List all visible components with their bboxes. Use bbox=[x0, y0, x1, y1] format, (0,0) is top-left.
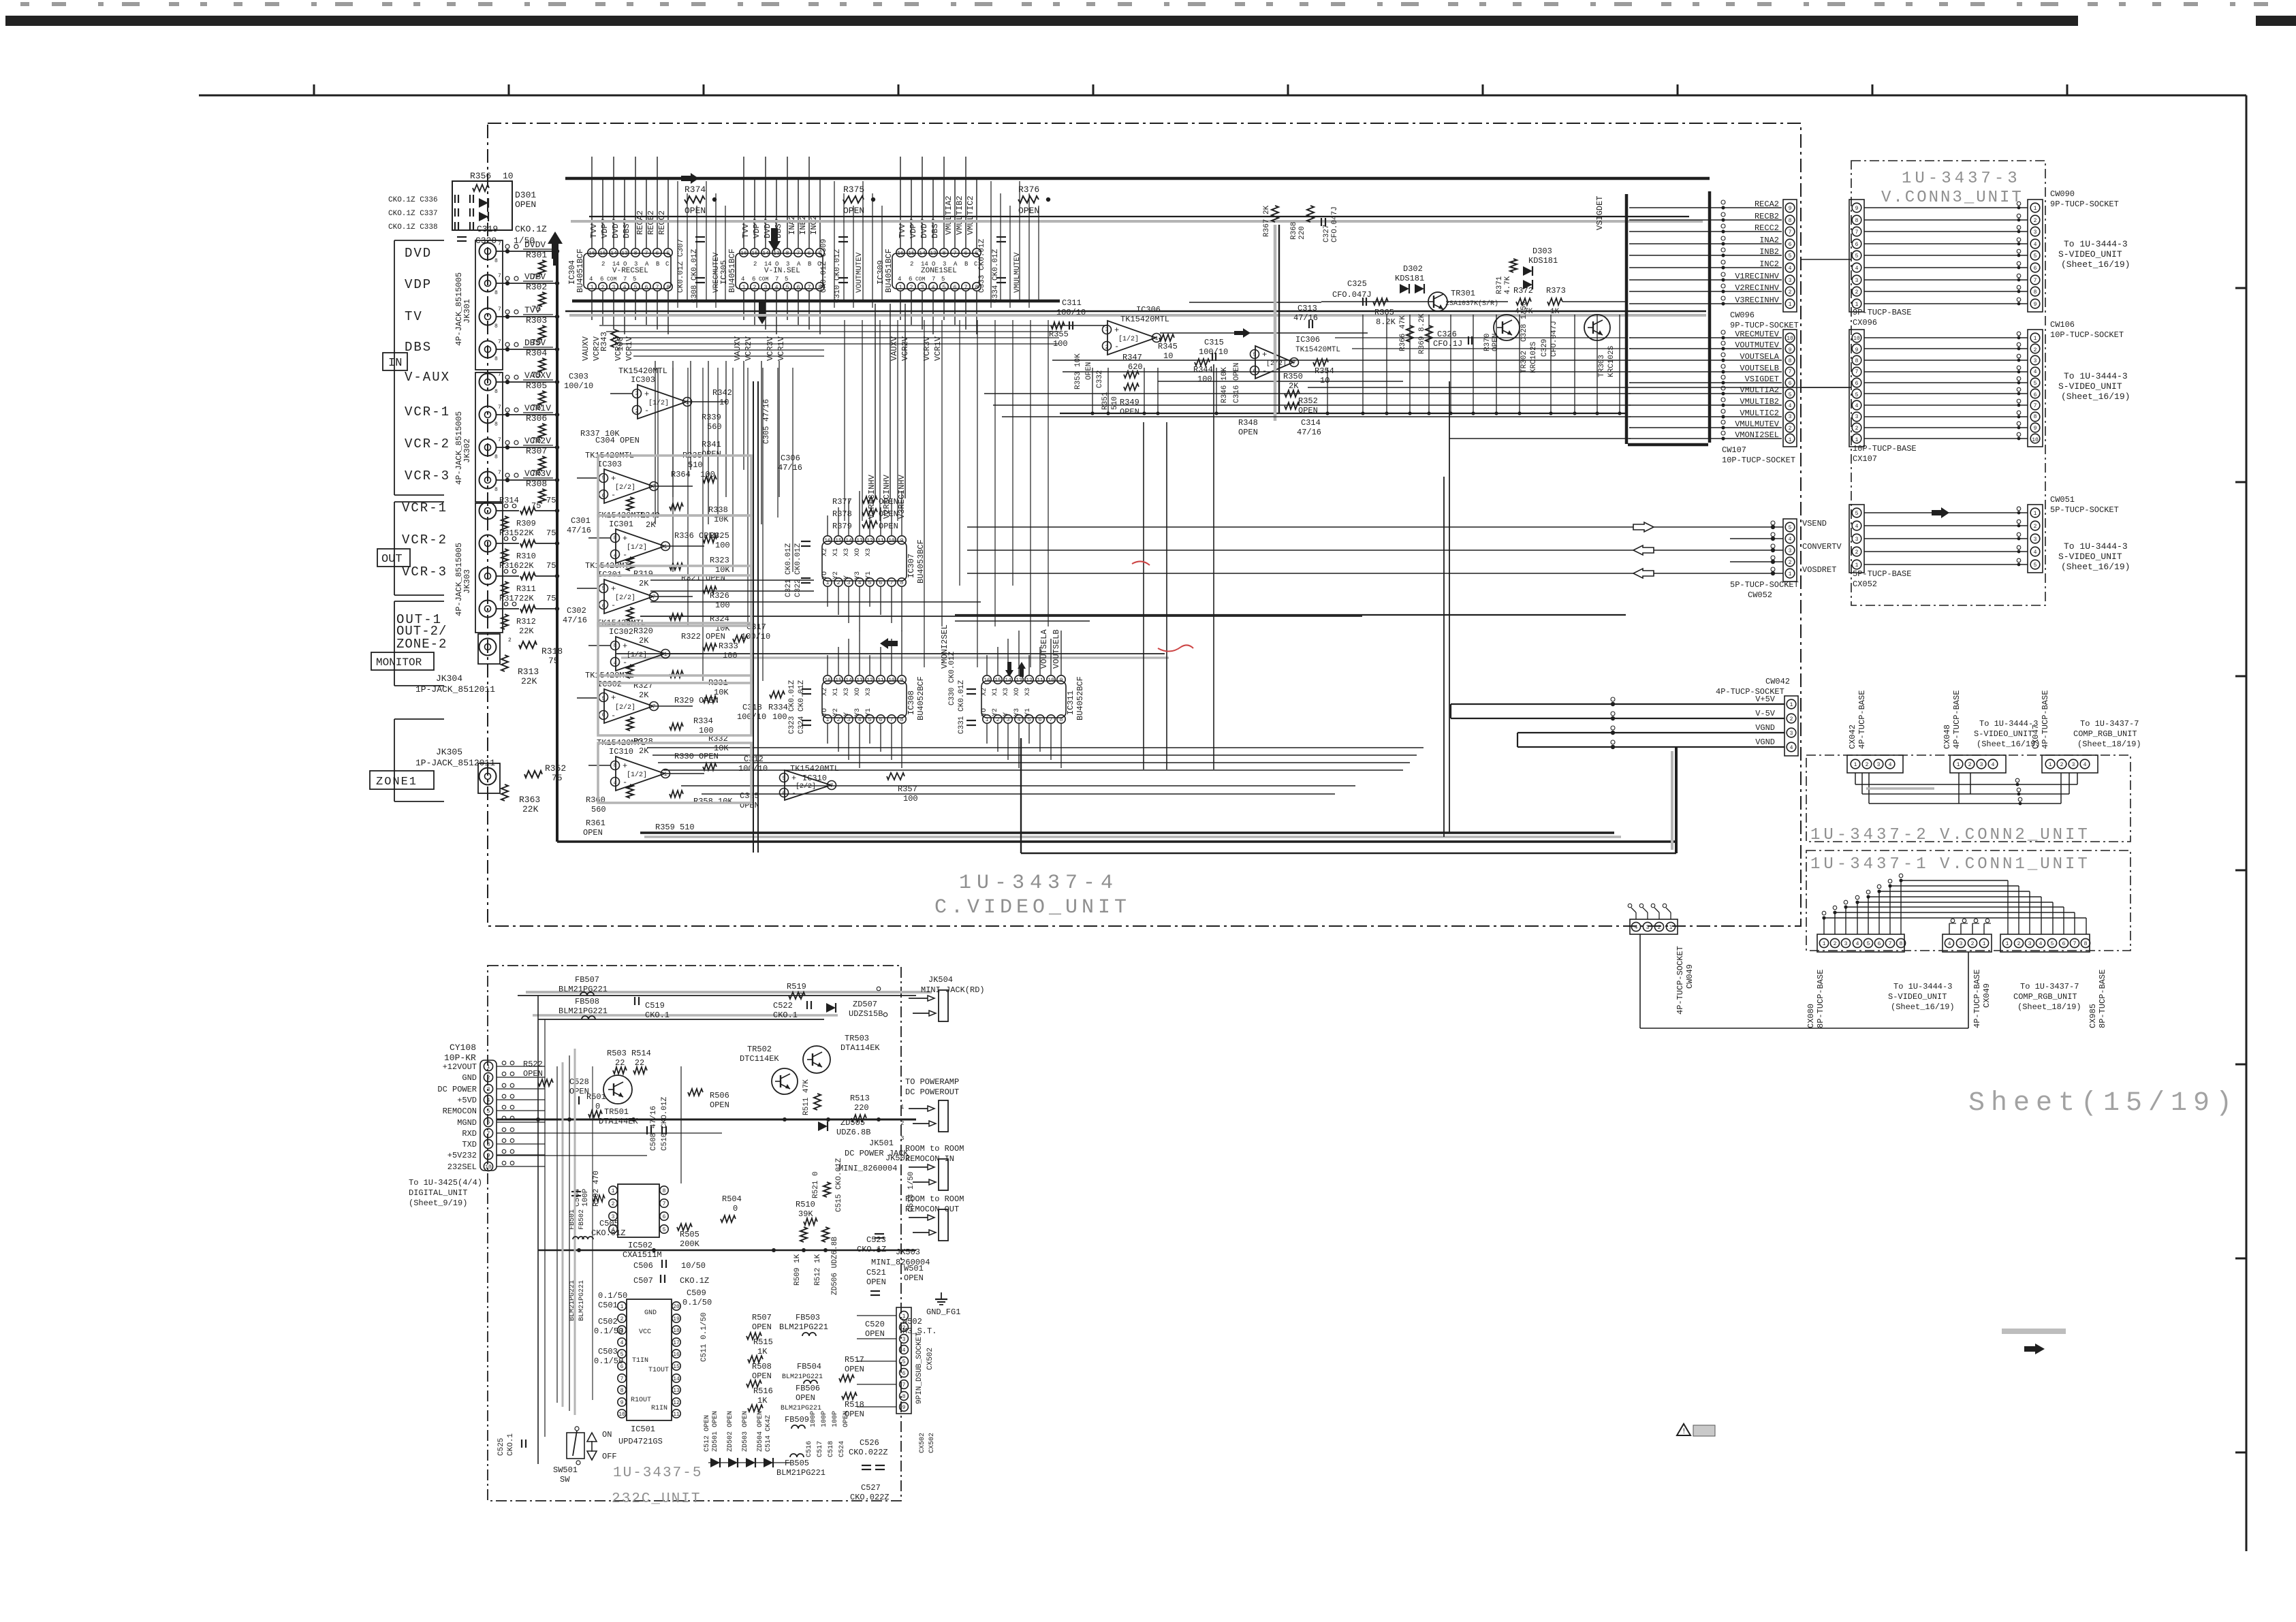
svg-text:R355: R355 bbox=[1049, 330, 1069, 339]
svg-text:10: 10 bbox=[2032, 437, 2039, 443]
svg-text:7: 7 bbox=[1789, 369, 1792, 375]
svg-text:5P-TUCP-BASE: 5P-TUCP-BASE bbox=[1853, 569, 1911, 579]
svg-text:8: 8 bbox=[494, 422, 498, 428]
svg-text:ZD503 OPEN: ZD503 OPEN bbox=[742, 1411, 749, 1452]
svg-text:100P: 100P bbox=[832, 1411, 839, 1427]
svg-text:5: 5 bbox=[786, 285, 789, 291]
svg-text:4: 4 bbox=[2034, 242, 2037, 248]
svg-text:0.1/50: 0.1/50 bbox=[598, 1291, 627, 1301]
svg-text:100/10: 100/10 bbox=[1056, 308, 1086, 317]
svg-text:15: 15 bbox=[599, 251, 606, 257]
svg-text:7: 7 bbox=[652, 704, 656, 710]
svg-text:C311: C311 bbox=[1062, 298, 1082, 308]
svg-text:7: 7 bbox=[1855, 229, 1859, 236]
svg-text:7: 7 bbox=[652, 484, 656, 490]
svg-text:S-VIDEO_UNIT: S-VIDEO_UNIT bbox=[2058, 381, 2122, 392]
svg-text:OPEN: OPEN bbox=[843, 206, 864, 216]
svg-text:1: 1 bbox=[2049, 762, 2052, 768]
svg-text:2: 2 bbox=[1834, 941, 1837, 947]
svg-text:10: 10 bbox=[1320, 376, 1330, 385]
svg-text:OPEN: OPEN bbox=[879, 522, 898, 531]
svg-text:X3: X3 bbox=[1003, 688, 1010, 696]
svg-text:BU4051BCF: BU4051BCF bbox=[727, 249, 737, 293]
svg-text:7: 7 bbox=[797, 251, 800, 257]
svg-text:620: 620 bbox=[1128, 362, 1143, 372]
svg-text:[1/2]: [1/2] bbox=[627, 651, 647, 659]
svg-text:10: 10 bbox=[485, 1164, 492, 1171]
svg-text:3: 3 bbox=[1790, 731, 1793, 737]
svg-text:C506: C506 bbox=[633, 1261, 653, 1271]
svg-text:11: 11 bbox=[877, 538, 884, 544]
svg-text:+: + bbox=[611, 474, 616, 483]
svg-text:2: 2 bbox=[2034, 524, 2037, 530]
svg-text:4: 4 bbox=[614, 780, 617, 786]
svg-text:BLM21PG221: BLM21PG221 bbox=[776, 1468, 825, 1478]
svg-text:CKO.1: CKO.1 bbox=[645, 1011, 670, 1020]
svg-text:1: 1 bbox=[664, 544, 667, 550]
svg-text:GND_FG1: GND_FG1 bbox=[926, 1307, 960, 1317]
svg-text:2: 2 bbox=[837, 580, 840, 586]
svg-text:C520: C520 bbox=[865, 1320, 885, 1329]
svg-text:C501: C501 bbox=[598, 1301, 618, 1310]
svg-text:7: 7 bbox=[775, 276, 779, 283]
svg-text:X3: X3 bbox=[865, 548, 872, 556]
svg-text:R368: R368 bbox=[1290, 222, 1298, 240]
svg-text:4: 4 bbox=[620, 1340, 624, 1346]
svg-text:CW090: CW090 bbox=[2050, 189, 2075, 199]
svg-text:1: 1 bbox=[1789, 302, 1792, 308]
svg-text:232C_UNIT: 232C_UNIT bbox=[612, 1491, 701, 1507]
svg-text:5: 5 bbox=[868, 580, 872, 586]
svg-text:14: 14 bbox=[845, 538, 852, 544]
svg-text:C316 OPEN: C316 OPEN bbox=[1233, 363, 1241, 403]
svg-text:R339: R339 bbox=[702, 413, 721, 422]
svg-text:22K: 22K bbox=[521, 676, 537, 686]
svg-text:2: 2 bbox=[2034, 347, 2037, 353]
svg-text:5: 5 bbox=[2034, 562, 2037, 569]
svg-text:4P-TUCP-BASE: 4P-TUCP-BASE bbox=[1972, 970, 1982, 1028]
svg-text:1: 1 bbox=[664, 772, 667, 778]
svg-text:INA2: INA2 bbox=[787, 215, 797, 235]
svg-text:3: 3 bbox=[902, 1337, 906, 1343]
svg-text:X3: X3 bbox=[865, 688, 872, 696]
svg-text:7: 7 bbox=[1855, 369, 1859, 375]
svg-text:VRECMUTEV: VRECMUTEV bbox=[712, 252, 721, 293]
svg-text:7: 7 bbox=[498, 339, 501, 345]
svg-text:XO: XO bbox=[854, 548, 862, 556]
svg-text:3: 3 bbox=[634, 261, 638, 268]
svg-text:TR501: TR501 bbox=[604, 1107, 629, 1117]
svg-text:V.CONN2_UNIT: V.CONN2_UNIT bbox=[1940, 826, 2090, 844]
svg-text:47/16: 47/16 bbox=[778, 463, 802, 473]
svg-text:6: 6 bbox=[656, 251, 659, 257]
svg-text:3: 3 bbox=[847, 717, 851, 723]
svg-text:C528: C528 bbox=[569, 1077, 589, 1087]
svg-text:S-VIDEO_UNIT: S-VIDEO_UNIT bbox=[1888, 992, 1947, 1002]
svg-text:X3: X3 bbox=[1024, 688, 1032, 696]
svg-text:R367 2K: R367 2K bbox=[1263, 205, 1271, 237]
svg-text:R320: R320 bbox=[633, 626, 653, 636]
svg-text:3: 3 bbox=[2034, 358, 2037, 364]
svg-text:8: 8 bbox=[494, 356, 498, 362]
svg-text:100: 100 bbox=[1197, 375, 1212, 384]
svg-text:7: 7 bbox=[964, 285, 968, 291]
svg-text:-: - bbox=[611, 490, 616, 500]
svg-text:8: 8 bbox=[487, 1142, 490, 1148]
svg-text:4P-JACK_8515005: 4P-JACK_8515005 bbox=[454, 411, 464, 485]
svg-text:DIGITAL_UNIT: DIGITAL_UNIT bbox=[409, 1188, 467, 1198]
svg-text:8: 8 bbox=[1060, 717, 1063, 723]
svg-text:13: 13 bbox=[856, 678, 863, 684]
svg-text:100: 100 bbox=[715, 541, 730, 550]
svg-text:OPEN: OPEN bbox=[752, 1322, 772, 1332]
svg-text:15: 15 bbox=[751, 251, 758, 257]
svg-text:Y: Y bbox=[1003, 712, 1010, 716]
svg-text:1: 1 bbox=[900, 1104, 904, 1111]
svg-text:100P: 100P bbox=[582, 1188, 590, 1207]
svg-text:XO: XO bbox=[1013, 688, 1021, 696]
svg-text:1: 1 bbox=[826, 717, 830, 723]
svg-text:2: 2 bbox=[601, 261, 605, 268]
svg-text:4: 4 bbox=[1789, 537, 1792, 543]
svg-text:3: 3 bbox=[1105, 327, 1109, 333]
svg-text:16: 16 bbox=[897, 251, 904, 257]
svg-text:JK504: JK504 bbox=[928, 975, 953, 985]
svg-text:1: 1 bbox=[620, 1304, 624, 1310]
svg-text:10: 10 bbox=[1048, 678, 1054, 684]
svg-text:C305 47/16: C305 47/16 bbox=[763, 399, 771, 444]
svg-text:C335: C335 bbox=[740, 791, 759, 801]
svg-text:5: 5 bbox=[1867, 941, 1870, 947]
svg-text:V-IN.SEL: V-IN.SEL bbox=[764, 267, 800, 275]
svg-text:1: 1 bbox=[1823, 941, 1826, 947]
svg-text:R341: R341 bbox=[702, 440, 721, 449]
svg-text:A: A bbox=[797, 261, 801, 268]
svg-text:IC301: IC301 bbox=[609, 520, 633, 529]
svg-text:S-VIDEO_UNIT: S-VIDEO_UNIT bbox=[1974, 729, 2032, 739]
svg-text:5: 5 bbox=[1789, 253, 1792, 259]
svg-text:1: 1 bbox=[1790, 702, 1793, 708]
svg-text:C310 CK0.01Z: C310 CK0.01Z bbox=[834, 249, 842, 303]
svg-text:232SEL: 232SEL bbox=[447, 1162, 477, 1172]
svg-text:TK15420MTL: TK15420MTL bbox=[618, 366, 667, 376]
svg-text:XO: XO bbox=[854, 688, 862, 696]
svg-text:A: A bbox=[954, 261, 958, 268]
svg-text:FB503: FB503 bbox=[796, 1313, 820, 1322]
svg-text:GND: GND bbox=[462, 1073, 477, 1083]
svg-text:Y2: Y2 bbox=[832, 571, 840, 579]
svg-text:DC POWEROUT: DC POWEROUT bbox=[905, 1087, 959, 1097]
svg-text:VOSDRET: VOSDRET bbox=[1802, 565, 1836, 575]
svg-text:1: 1 bbox=[487, 1064, 490, 1070]
svg-text:IC308: IC308 bbox=[907, 690, 916, 715]
svg-text:13: 13 bbox=[773, 251, 780, 257]
svg-text:VAUXV: VAUXV bbox=[524, 370, 551, 381]
svg-text:R505: R505 bbox=[680, 1230, 699, 1239]
svg-text:1U-3437-5: 1U-3437-5 bbox=[613, 1465, 702, 1481]
svg-text:8: 8 bbox=[902, 1394, 906, 1400]
svg-text:8: 8 bbox=[614, 535, 617, 541]
svg-text:100: 100 bbox=[772, 712, 787, 722]
svg-text:8: 8 bbox=[2084, 941, 2088, 947]
svg-text:0: 0 bbox=[595, 1102, 600, 1111]
svg-text:Y: Y bbox=[843, 712, 851, 716]
svg-text:12: 12 bbox=[866, 538, 873, 544]
svg-text:VSIGDET: VSIGDET bbox=[1595, 196, 1605, 230]
svg-text:3: 3 bbox=[1789, 278, 1792, 284]
svg-text:2: 2 bbox=[487, 1075, 490, 1081]
svg-text:CKO.1: CKO.1 bbox=[507, 1433, 515, 1456]
svg-text:4P-TUCP-BASE: 4P-TUCP-BASE bbox=[1857, 690, 1867, 749]
svg-text:V.CONN3_UNIT: V.CONN3_UNIT bbox=[1881, 189, 2024, 207]
svg-text:VSEND: VSEND bbox=[1802, 519, 1827, 528]
svg-text:R356: R356 bbox=[470, 171, 491, 181]
svg-text:BLM21PG221: BLM21PG221 bbox=[569, 1280, 576, 1321]
svg-text:4: 4 bbox=[1856, 941, 1859, 947]
svg-text:ZD504 OPEN: ZD504 OPEN bbox=[757, 1411, 764, 1452]
svg-text:1U-3437-4: 1U-3437-4 bbox=[959, 872, 1118, 895]
svg-text:[1/2]: [1/2] bbox=[648, 399, 669, 407]
svg-text:CKO.1Z C337: CKO.1Z C337 bbox=[388, 210, 438, 218]
svg-text:Y3: Y3 bbox=[1013, 708, 1021, 716]
svg-text:13: 13 bbox=[621, 251, 628, 257]
svg-text:8: 8 bbox=[900, 717, 904, 723]
svg-text:4: 4 bbox=[2039, 941, 2043, 947]
svg-text:7: 7 bbox=[487, 1131, 490, 1137]
svg-text:VCR3V: VCR3V bbox=[922, 336, 932, 361]
svg-text:8: 8 bbox=[667, 285, 670, 291]
svg-text:R509 1K: R509 1K bbox=[793, 1254, 802, 1286]
svg-text:2: 2 bbox=[508, 637, 512, 643]
svg-text:6: 6 bbox=[602, 712, 606, 718]
svg-text:COM: COM bbox=[607, 276, 617, 283]
svg-text:C523: C523 bbox=[866, 1235, 886, 1245]
svg-text:Y: Y bbox=[843, 575, 851, 579]
svg-text:C526: C526 bbox=[860, 1438, 879, 1448]
svg-text:C322 CK0.01Z: C322 CK0.01Z bbox=[794, 543, 802, 597]
svg-text:VCR-2: VCR-2 bbox=[402, 532, 447, 547]
svg-text:YO: YO bbox=[981, 708, 988, 716]
svg-text:IC307: IC307 bbox=[907, 554, 916, 578]
svg-text:4: 4 bbox=[1855, 524, 1859, 530]
svg-text:14: 14 bbox=[764, 261, 772, 268]
svg-text:R309: R309 bbox=[516, 519, 536, 528]
svg-text:R511 47K: R511 47K bbox=[802, 1079, 811, 1115]
svg-text:VGND: VGND bbox=[1755, 723, 1775, 733]
svg-text:6: 6 bbox=[879, 717, 883, 723]
svg-text:4: 4 bbox=[1790, 745, 1793, 751]
svg-text:2: 2 bbox=[910, 261, 913, 268]
svg-text:3: 3 bbox=[1855, 537, 1859, 543]
svg-text:R365: R365 bbox=[1374, 308, 1394, 317]
svg-text:100/10: 100/10 bbox=[564, 381, 593, 391]
svg-text:BU4053BCF: BU4053BCF bbox=[916, 539, 926, 584]
svg-text:47/16: 47/16 bbox=[1297, 428, 1321, 437]
svg-text:VMULTIB2: VMULTIB2 bbox=[955, 195, 964, 235]
svg-text:10: 10 bbox=[888, 678, 895, 684]
svg-text:7: 7 bbox=[1050, 717, 1053, 723]
svg-text:JK301: JK301 bbox=[462, 299, 472, 323]
svg-text:1U-3437-3: 1U-3437-3 bbox=[1902, 170, 2021, 188]
svg-text:R1OUT: R1OUT bbox=[631, 1397, 651, 1404]
svg-text:4: 4 bbox=[1855, 403, 1859, 409]
svg-text:[1/2]: [1/2] bbox=[1118, 335, 1139, 343]
svg-text:CKO.1Z C336: CKO.1Z C336 bbox=[388, 196, 438, 204]
svg-text:5: 5 bbox=[1855, 392, 1859, 398]
svg-text:14: 14 bbox=[1005, 678, 1011, 684]
svg-text:MONITOR: MONITOR bbox=[376, 656, 422, 669]
svg-text:R359 510: R359 510 bbox=[655, 823, 695, 832]
svg-text:7: 7 bbox=[1293, 360, 1296, 366]
svg-text:FB506: FB506 bbox=[796, 1384, 820, 1393]
svg-text:7: 7 bbox=[498, 404, 501, 411]
svg-text:8: 8 bbox=[663, 1188, 666, 1194]
svg-text:4: 4 bbox=[2034, 550, 2037, 556]
svg-text:5: 5 bbox=[943, 285, 946, 291]
svg-text:R358 10K: R358 10K bbox=[693, 797, 733, 806]
svg-text:[1/2]: [1/2] bbox=[627, 771, 647, 779]
svg-text:INC2: INC2 bbox=[809, 215, 819, 235]
svg-text:8: 8 bbox=[786, 251, 789, 257]
svg-text:FB508: FB508 bbox=[575, 997, 599, 1006]
svg-text:22K: 22K bbox=[519, 626, 534, 636]
svg-text:1K: 1K bbox=[757, 1396, 768, 1405]
svg-text:9P-TUCP-SOCKET: 9P-TUCP-SOCKET bbox=[2050, 200, 2119, 209]
svg-text:DBS: DBS bbox=[405, 340, 432, 355]
svg-text:8P-TUCP-BASE: 8P-TUCP-BASE bbox=[2098, 970, 2107, 1028]
svg-text:6: 6 bbox=[954, 285, 957, 291]
svg-text:R317: R317 bbox=[499, 594, 519, 603]
svg-text:17: 17 bbox=[673, 1340, 680, 1346]
svg-text:R345: R345 bbox=[1158, 342, 1178, 351]
svg-text:C503: C503 bbox=[598, 1347, 618, 1356]
svg-text:11: 11 bbox=[673, 1412, 680, 1418]
svg-text:4: 4 bbox=[623, 285, 627, 291]
svg-text:560: 560 bbox=[591, 805, 606, 814]
svg-text:6: 6 bbox=[1855, 242, 1859, 248]
svg-text:14: 14 bbox=[921, 261, 928, 268]
svg-text:Y1: Y1 bbox=[1024, 708, 1032, 716]
svg-text:6: 6 bbox=[797, 285, 800, 291]
svg-text:22K: 22K bbox=[522, 804, 539, 814]
svg-text:8: 8 bbox=[1855, 358, 1859, 364]
svg-text:4: 4 bbox=[614, 553, 617, 559]
svg-text:9: 9 bbox=[1789, 347, 1792, 353]
svg-text:S-VIDEO_UNIT: S-VIDEO_UNIT bbox=[2058, 249, 2122, 259]
svg-text:R357: R357 bbox=[898, 784, 917, 794]
svg-text:OPEN: OPEN bbox=[583, 828, 603, 838]
svg-text:VCR1V: VCR1V bbox=[625, 336, 634, 361]
svg-text:C328 1/50: C328 1/50 bbox=[1520, 302, 1528, 342]
svg-text:COM: COM bbox=[759, 276, 769, 283]
svg-text:CX042: CX042 bbox=[1848, 725, 1857, 749]
svg-text:To 1U-3437-7: To 1U-3437-7 bbox=[2020, 982, 2079, 991]
svg-text:VOUTSELB: VOUTSELB bbox=[1052, 629, 1061, 669]
svg-text:IC306: IC306 bbox=[1136, 305, 1161, 315]
svg-text:7: 7 bbox=[498, 470, 501, 476]
svg-text:C505: C505 bbox=[599, 1219, 619, 1228]
svg-text:ZD507: ZD507 bbox=[853, 1000, 877, 1009]
svg-text:Y1: Y1 bbox=[865, 708, 872, 716]
svg-text:1: 1 bbox=[591, 285, 594, 291]
svg-text:5P-TUCP-SOCKET: 5P-TUCP-SOCKET bbox=[2050, 505, 2119, 515]
svg-text:CW106: CW106 bbox=[2050, 320, 2075, 330]
svg-text:5: 5 bbox=[868, 717, 872, 723]
svg-text:5: 5 bbox=[602, 475, 606, 481]
svg-text:ZD506 UDZ6.8B: ZD506 UDZ6.8B bbox=[831, 1237, 839, 1295]
svg-text:9: 9 bbox=[902, 1405, 906, 1411]
svg-text:Y1: Y1 bbox=[865, 571, 872, 579]
svg-text:DBSV: DBSV bbox=[524, 338, 546, 348]
svg-text:6: 6 bbox=[1789, 242, 1792, 248]
svg-text:1: 1 bbox=[986, 717, 989, 723]
svg-text:R346 10K: R346 10K bbox=[1221, 367, 1229, 403]
svg-text:R312: R312 bbox=[516, 617, 536, 626]
svg-text:CK0.01Z C307: CK0.01Z C307 bbox=[677, 239, 685, 293]
svg-text:2: 2 bbox=[1789, 289, 1792, 296]
svg-text:+: + bbox=[611, 693, 616, 703]
svg-text:4P-TUCP-BASE: 4P-TUCP-BASE bbox=[2041, 690, 2050, 749]
svg-text:0: 0 bbox=[733, 1204, 738, 1213]
svg-text:R379: R379 bbox=[832, 522, 852, 531]
svg-text:X2: X2 bbox=[821, 548, 829, 556]
svg-text:R501: R501 bbox=[586, 1092, 606, 1102]
svg-text:2K: 2K bbox=[639, 690, 649, 700]
svg-text:2K: 2K bbox=[639, 579, 649, 588]
svg-text:CFO.047J: CFO.047J bbox=[1331, 206, 1339, 242]
svg-text:2: 2 bbox=[1866, 762, 1869, 768]
svg-text:-: - bbox=[1114, 342, 1119, 351]
svg-text:OPEN: OPEN bbox=[523, 1069, 543, 1079]
svg-text:REMOCON OUT: REMOCON OUT bbox=[905, 1205, 959, 1214]
svg-text:4: 4 bbox=[932, 285, 935, 291]
svg-text:BU4051BCF: BU4051BCF bbox=[884, 249, 894, 293]
svg-text:R513: R513 bbox=[850, 1094, 870, 1103]
svg-text:OUT: OUT bbox=[381, 553, 403, 566]
svg-text:VCR-2: VCR-2 bbox=[405, 436, 450, 451]
svg-text:Y3: Y3 bbox=[854, 708, 862, 716]
svg-text:TR302: TR302 bbox=[1520, 351, 1528, 373]
svg-text:R512 1K: R512 1K bbox=[814, 1254, 822, 1286]
svg-text:COMP_RGB_UNIT: COMP_RGB_UNIT bbox=[2013, 992, 2077, 1002]
svg-text:TVV: TVV bbox=[898, 223, 907, 238]
svg-text:TVV: TVV bbox=[589, 223, 599, 238]
svg-text:R323: R323 bbox=[710, 556, 729, 565]
svg-text:TK15420MTL: TK15420MTL bbox=[1120, 315, 1169, 324]
svg-text:R377: R377 bbox=[832, 497, 852, 507]
svg-text:C511 0.1/50: C511 0.1/50 bbox=[700, 1312, 708, 1362]
svg-text:9: 9 bbox=[1060, 678, 1063, 684]
svg-text:OPEN: OPEN bbox=[879, 497, 898, 507]
svg-text:22K: 22K bbox=[519, 528, 534, 538]
svg-text:C525: C525 bbox=[497, 1438, 505, 1456]
svg-text:6: 6 bbox=[1855, 381, 1859, 387]
svg-text:7: 7 bbox=[498, 437, 501, 443]
svg-text:S-VIDEO_UNIT: S-VIDEO_UNIT bbox=[2058, 552, 2122, 562]
svg-text:47/16: 47/16 bbox=[567, 526, 591, 535]
svg-text:6: 6 bbox=[487, 1119, 490, 1126]
svg-text:1: 1 bbox=[1854, 762, 1857, 768]
svg-text:JK501: JK501 bbox=[869, 1139, 894, 1148]
svg-text:4: 4 bbox=[487, 1098, 490, 1104]
svg-text:8: 8 bbox=[2034, 414, 2037, 420]
svg-text:9: 9 bbox=[620, 1400, 624, 1406]
svg-text:13: 13 bbox=[1016, 678, 1022, 684]
svg-text:13: 13 bbox=[930, 251, 937, 257]
svg-text:C331 CK0.01Z: C331 CK0.01Z bbox=[958, 680, 966, 734]
svg-text:VCR2V: VCR2V bbox=[524, 436, 551, 446]
svg-text:7: 7 bbox=[498, 241, 501, 247]
